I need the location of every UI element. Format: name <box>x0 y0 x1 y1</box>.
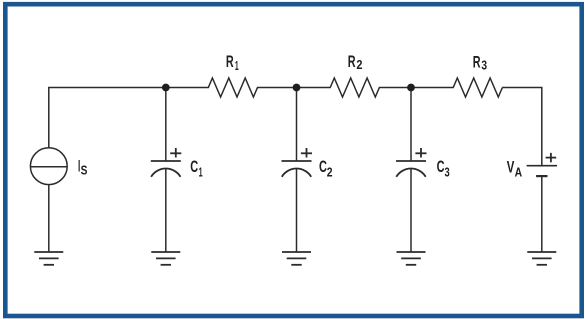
ground (VA) <box>527 252 556 265</box>
wire: R3 to VA <box>502 88 541 166</box>
wire: C1 to ground <box>165 169 167 252</box>
wire: C3 to ground <box>410 169 412 252</box>
label IS <box>78 156 88 177</box>
svg-text:3: 3 <box>445 165 450 180</box>
svg-text:V: V <box>507 158 515 177</box>
wire: IS top to node 1 <box>49 88 166 149</box>
svg-text:R: R <box>348 52 356 71</box>
resistor R3 <box>411 78 502 97</box>
wire: C2 to ground <box>296 169 298 252</box>
svg-text:C: C <box>437 157 445 176</box>
svg-text:2: 2 <box>327 165 333 180</box>
ground (C3) <box>397 252 426 265</box>
svg-text:1: 1 <box>235 58 239 73</box>
svg-text:C: C <box>319 157 327 176</box>
svg-text:R: R <box>473 52 481 71</box>
wire: node 1 to C1 <box>165 88 167 162</box>
resistor R1 <box>166 78 297 97</box>
wire: VA to ground <box>541 176 543 252</box>
node 1 junction <box>162 84 170 92</box>
svg-text:3: 3 <box>481 58 487 73</box>
wire: node 3 to C3 <box>410 88 412 162</box>
wire: IS to ground <box>48 185 50 252</box>
node 3 junction <box>407 84 415 92</box>
node 2 junction <box>293 84 301 92</box>
label C3 <box>437 157 450 180</box>
voltage source VA (battery) <box>527 153 557 176</box>
ground (C2) <box>282 252 311 265</box>
label VA <box>507 158 523 180</box>
resistor R2 <box>297 78 412 97</box>
svg-text:S: S <box>81 163 88 178</box>
svg-text:A: A <box>515 164 523 179</box>
label R3 <box>473 52 487 72</box>
ground (C1) <box>151 252 180 265</box>
label R2 <box>348 52 363 72</box>
svg-text:1: 1 <box>199 164 203 179</box>
wire: node 2 to C2 <box>296 88 298 162</box>
svg-text:C: C <box>190 157 198 176</box>
current source IS <box>30 148 67 185</box>
label R1 <box>226 52 239 73</box>
capacitor C3 <box>396 148 427 177</box>
label C2 <box>319 157 333 180</box>
ground (IS) <box>34 252 63 265</box>
label C1 <box>190 157 202 180</box>
capacitor C1 <box>151 148 182 177</box>
svg-text:2: 2 <box>356 57 362 72</box>
svg-text:R: R <box>226 52 234 71</box>
capacitor C2 <box>282 148 313 177</box>
